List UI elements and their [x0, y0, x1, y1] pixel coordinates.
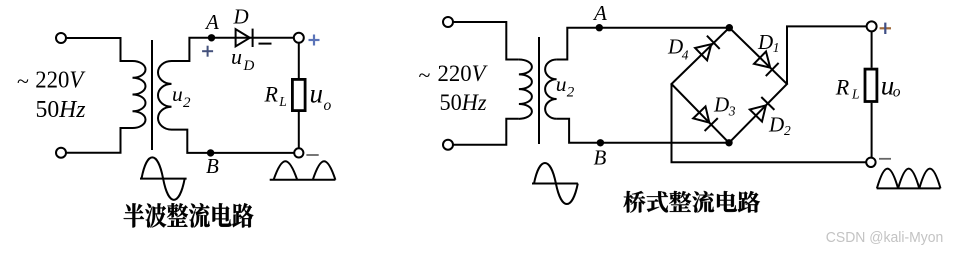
wire resistor to bottom terminal — [871, 103, 873, 158]
wire primary bottom — [66, 128, 132, 153]
wire bridge left corner to minus rail — [672, 84, 867, 162]
svg-text:~: ~ — [17, 69, 29, 94]
svg-text:o: o — [893, 84, 901, 101]
svg-text:D: D — [243, 58, 255, 74]
half-wave output waveform — [270, 161, 336, 180]
wire bridge right corner to plus rail — [787, 26, 867, 84]
wire top-left to transformer primary — [66, 38, 132, 61]
bridge diamond edges — [672, 28, 788, 143]
svg-text:u: u — [310, 78, 324, 108]
svg-text:1: 1 — [773, 40, 780, 55]
svg-text:o: o — [324, 97, 332, 114]
svg-text:L: L — [851, 86, 860, 101]
svg-text:~: ~ — [419, 62, 431, 87]
diode D4 — [695, 36, 720, 61]
output terminal bottom-right — [294, 148, 303, 157]
svg-text:4: 4 — [682, 48, 689, 63]
node A junction dot — [596, 24, 603, 31]
svg-text:2: 2 — [183, 95, 191, 111]
diode D2 — [750, 97, 775, 122]
plus sign at output — [309, 35, 320, 46]
minus sign at bottom output — [306, 154, 318, 156]
svg-text:D: D — [667, 35, 683, 59]
right circuit: bridge rectifier — [419, 1, 941, 213]
svg-text:D: D — [233, 4, 249, 28]
input sine wave symbol — [140, 157, 187, 199]
svg-text:B: B — [206, 154, 219, 178]
svg-text:R: R — [264, 82, 279, 107]
svg-text:D: D — [757, 30, 773, 54]
svg-text:u: u — [231, 44, 242, 69]
wire resistor to bottom terminal — [298, 112, 300, 148]
svg-text:R: R — [835, 74, 850, 99]
svg-text:50Hz: 50Hz — [36, 97, 87, 123]
svg-text:A: A — [592, 1, 607, 25]
resistor RL — [865, 69, 877, 101]
wire to resistor RL — [298, 43, 300, 78]
svg-text:A: A — [204, 10, 219, 34]
svg-text:D: D — [713, 93, 729, 117]
input sine wave symbol — [532, 163, 578, 204]
svg-text:L: L — [278, 94, 287, 109]
minus sign after diode — [259, 43, 272, 45]
full-wave output waveform — [877, 169, 941, 189]
wire secondary bottom / node B line — [557, 119, 729, 143]
wire secondary top to node A — [172, 38, 294, 61]
wire secondary top to bridge top — [557, 28, 730, 60]
node B junction dot — [207, 149, 214, 156]
svg-text:3: 3 — [728, 104, 736, 119]
svg-text:2: 2 — [784, 123, 791, 138]
svg-text:2: 2 — [567, 84, 575, 100]
wire to resistor RL — [871, 31, 873, 67]
svg-text:u: u — [172, 82, 183, 106]
input terminal top-left — [443, 17, 453, 27]
svg-text:u: u — [556, 72, 567, 96]
wire to transformer primary — [453, 22, 519, 60]
plus sign — [880, 23, 891, 34]
wire primary bottom — [453, 119, 519, 145]
diode D — [236, 29, 253, 47]
node A junction dot — [208, 34, 215, 41]
transformer T secondary coil u2 — [158, 61, 171, 130]
svg-text:50Hz: 50Hz — [440, 90, 487, 115]
minus sign — [879, 158, 891, 160]
transformer T primary coil — [133, 61, 146, 128]
svg-text:CSDN @kali-Myon: CSDN @kali-Myon — [826, 230, 944, 246]
caption 半波整流电路 — [124, 203, 254, 227]
transformer T2 secondary coil u2 — [545, 60, 557, 119]
diode D1 — [754, 52, 779, 77]
left circuit: half-wave rectifier — [17, 4, 335, 227]
bridge bottom junction dot — [725, 139, 732, 146]
resistor RL — [292, 79, 305, 110]
transformer core — [538, 37, 540, 144]
bridge top junction dot — [726, 24, 733, 31]
svg-text:220V: 220V — [35, 68, 85, 94]
input terminal bottom-left — [56, 148, 66, 158]
svg-text:B: B — [594, 146, 607, 170]
svg-text:220V: 220V — [438, 61, 489, 86]
transformer core — [151, 40, 153, 150]
input terminal bottom-left — [443, 140, 453, 150]
input terminal top-left — [56, 33, 66, 43]
node B junction dot — [597, 139, 604, 146]
wire secondary bottom / node B line — [172, 130, 295, 153]
transformer T2 primary coil — [519, 60, 532, 119]
diode D3 — [693, 106, 718, 131]
output terminal minus — [866, 158, 875, 167]
plus sign at node A — [202, 46, 213, 57]
svg-text:D: D — [768, 112, 784, 136]
caption 桥式整流电路 — [624, 191, 760, 213]
output terminal plus — [867, 21, 877, 31]
output terminal top-right — [294, 33, 304, 43]
